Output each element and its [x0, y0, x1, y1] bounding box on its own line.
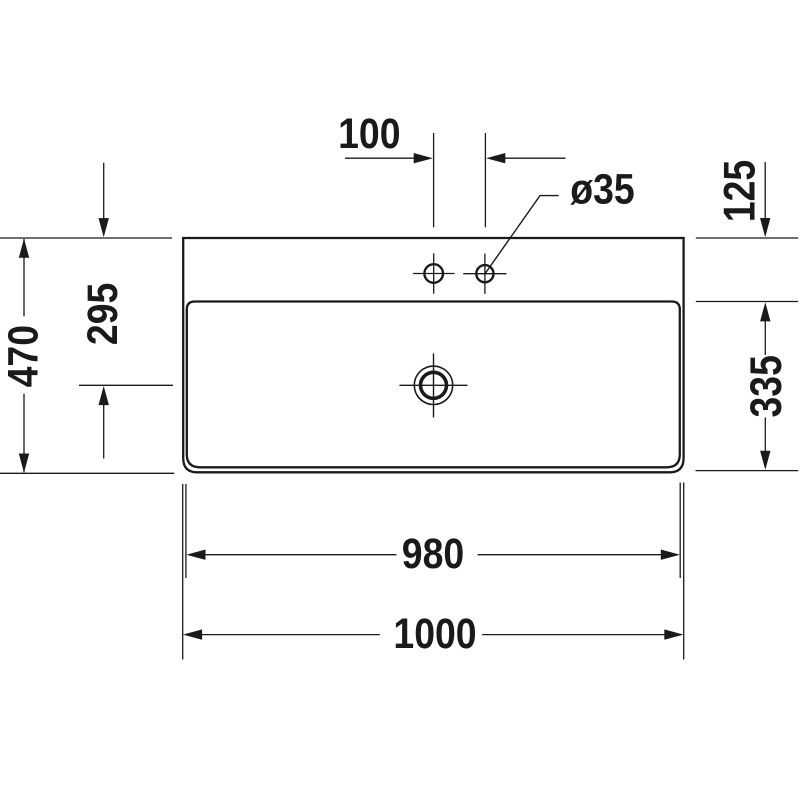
svg-text:295: 295	[79, 283, 127, 345]
svg-text:125: 125	[714, 160, 764, 222]
svg-text:ø35: ø35	[570, 165, 634, 213]
svg-text:1000: 1000	[393, 610, 476, 658]
svg-text:335: 335	[741, 355, 791, 417]
svg-text:980: 980	[402, 530, 464, 578]
svg-text:100: 100	[338, 110, 400, 158]
svg-text:470: 470	[0, 325, 47, 387]
